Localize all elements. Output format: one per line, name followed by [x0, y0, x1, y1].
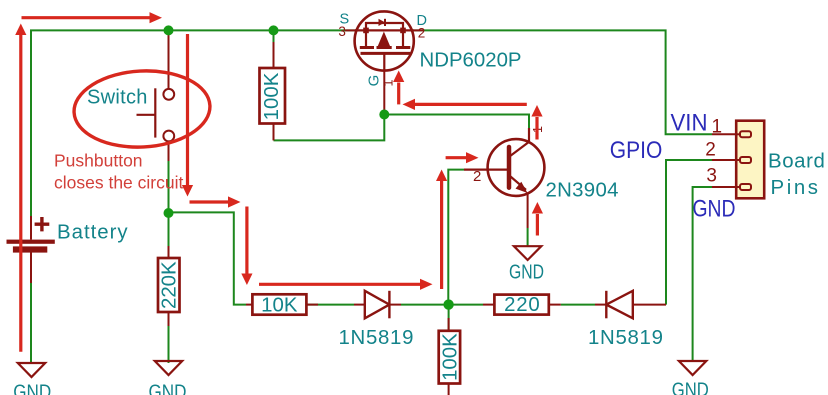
svg-text:GPIO: GPIO: [610, 137, 663, 164]
svg-text:Pushbutton: Pushbutton: [54, 151, 143, 171]
svg-text:3: 3: [706, 166, 717, 187]
svg-text:2: 2: [418, 26, 426, 41]
svg-text:NDP6020P: NDP6020P: [420, 49, 522, 71]
svg-text:Switch: Switch: [87, 87, 148, 109]
svg-text:GND: GND: [149, 382, 187, 395]
svg-text:2N3904: 2N3904: [546, 180, 619, 202]
svg-text:G: G: [366, 75, 383, 87]
svg-text:2: 2: [473, 168, 481, 185]
svg-text:Battery: Battery: [57, 221, 129, 243]
svg-text:1: 1: [712, 117, 723, 138]
svg-text:Board: Board: [768, 151, 825, 173]
svg-text:1N5819: 1N5819: [588, 327, 664, 349]
svg-text:GND: GND: [672, 380, 709, 395]
svg-text:100K: 100K: [439, 333, 461, 381]
svg-text:220K: 220K: [159, 261, 181, 309]
svg-text:VIN: VIN: [671, 110, 708, 137]
svg-text:Pins: Pins: [771, 177, 821, 199]
svg-text:GND: GND: [509, 262, 544, 284]
svg-text:1: 1: [382, 80, 396, 87]
svg-text:closes the circuit: closes the circuit: [54, 173, 183, 193]
svg-text:GND: GND: [13, 382, 51, 395]
svg-text:GND: GND: [693, 196, 736, 223]
svg-text:2: 2: [705, 140, 716, 161]
svg-text:220: 220: [504, 294, 540, 316]
svg-text:3: 3: [338, 24, 346, 39]
svg-text:10K: 10K: [261, 294, 298, 316]
svg-text:1N5819: 1N5819: [339, 327, 415, 349]
svg-text:100K: 100K: [261, 72, 283, 120]
